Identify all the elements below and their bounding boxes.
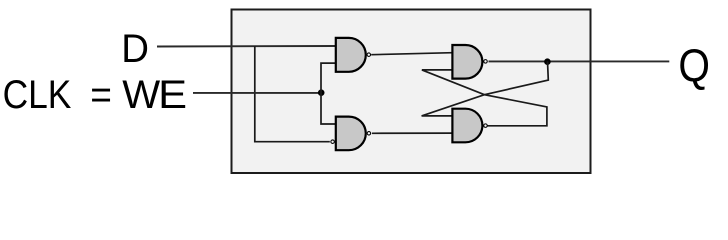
enclosing box (latch boundary) xyxy=(232,10,591,174)
nand gate U4 (bottom right) xyxy=(452,109,487,143)
wire CLK lead xyxy=(193,92,321,94)
wire gate1 output to gate3 input xyxy=(371,53,452,55)
nand gate U1 (top left) xyxy=(336,38,371,72)
svg-text:E: E xyxy=(158,72,187,117)
wire CLK vertical with stubs to gates xyxy=(321,63,336,124)
svg-text:CLK: CLK xyxy=(3,72,72,117)
svg-text:=: = xyxy=(90,73,112,118)
svg-text:D: D xyxy=(121,28,149,72)
wire feedback gate4 output to gate3 bottom input xyxy=(422,70,547,126)
nand gate U3 (top right) xyxy=(452,45,487,79)
wire D lead xyxy=(157,45,336,48)
wire D branch vertical xyxy=(255,46,330,142)
nand gate U2 (bottom left, inverted lower input) xyxy=(331,117,371,151)
svg-text:W: W xyxy=(122,73,160,117)
node CLK junction xyxy=(318,89,325,96)
wire feedback Q to gate4 top input xyxy=(422,61,549,116)
node Q junction xyxy=(544,58,551,65)
wire Q output xyxy=(489,60,670,62)
svg-text:Q: Q xyxy=(678,41,710,92)
wire gate2 output to gate4 input xyxy=(372,132,453,134)
